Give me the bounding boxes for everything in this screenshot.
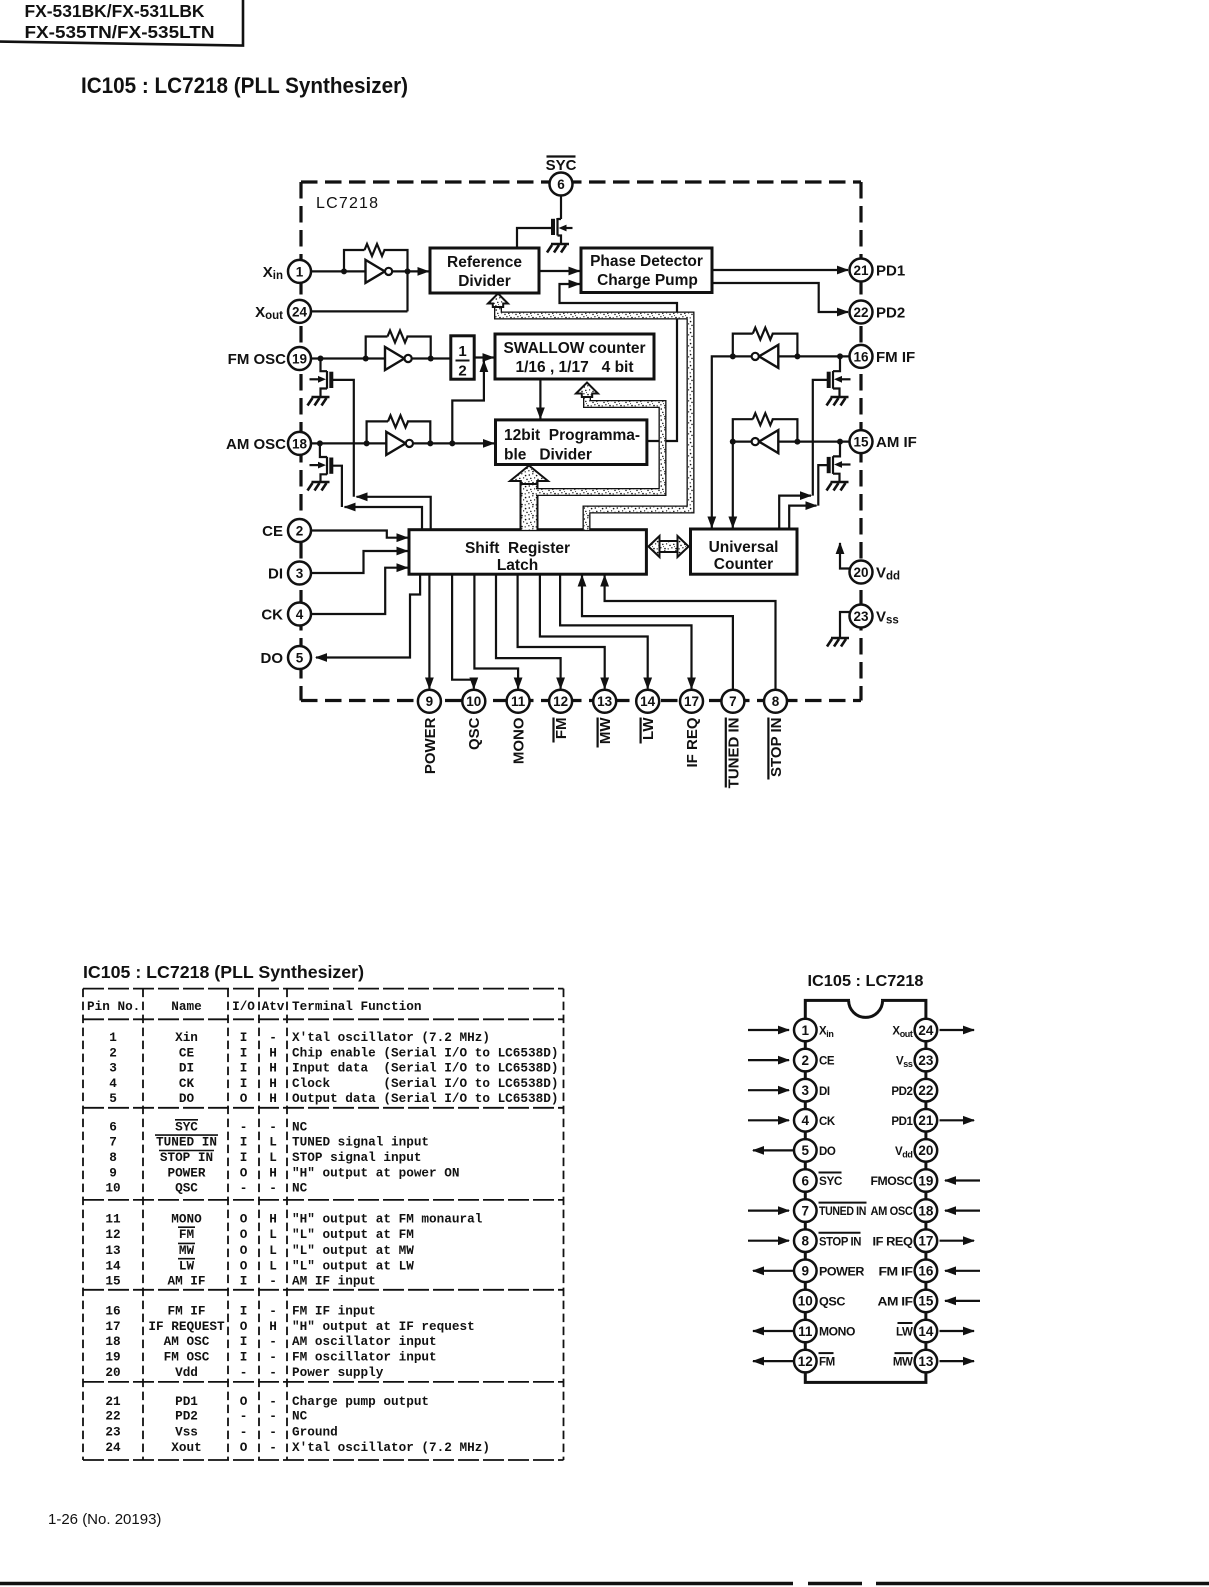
inverter U5 (AM IF, leftward) xyxy=(752,430,779,453)
svg-text:Charge pump output: Charge pump output xyxy=(292,1394,429,1409)
svg-text:2: 2 xyxy=(296,524,304,539)
wire phase detector to PD1 pin21 xyxy=(712,269,848,271)
svg-text:O: O xyxy=(240,1258,248,1273)
svg-text:FM: FM xyxy=(179,1227,194,1242)
svg-text:NC: NC xyxy=(292,1409,308,1424)
svg-text:Vdd: Vdd xyxy=(895,1146,912,1159)
svg-text:15: 15 xyxy=(918,1294,934,1309)
svg-text:-: - xyxy=(269,1334,277,1349)
wire divider feedback to charge pump (PD loop) xyxy=(560,284,678,441)
table rows pins 21-24 xyxy=(105,1394,490,1455)
wire pin16 FM IF row xyxy=(733,355,850,357)
svg-text:7: 7 xyxy=(109,1135,117,1150)
svg-text:DO: DO xyxy=(819,1146,836,1158)
svg-text:Input data (Serial I/O to LC6: Input data (Serial I/O to LC6538D) xyxy=(292,1061,558,1076)
svg-text:STOP IN: STOP IN xyxy=(768,718,785,777)
svg-text:O: O xyxy=(240,1091,248,1106)
svg-text:O: O xyxy=(240,1165,248,1180)
svg-text:I: I xyxy=(240,1030,248,1045)
svg-text:H: H xyxy=(269,1061,277,1076)
svg-text:LW: LW xyxy=(179,1258,195,1273)
svg-text:IF REQ: IF REQ xyxy=(873,1236,914,1248)
pinout pin 13 MW xyxy=(893,1350,974,1373)
svg-text:FX-531BK/FX-531LBK: FX-531BK/FX-531LBK xyxy=(25,1,205,21)
svg-text:IC105 : LC7218: IC105 : LC7218 xyxy=(808,973,924,990)
svg-text:PD1: PD1 xyxy=(891,1116,913,1128)
svg-text:CK: CK xyxy=(179,1076,195,1091)
wire shift register output to pin14 LW xyxy=(540,574,648,688)
pinout pin 9 POWER xyxy=(753,1260,865,1283)
svg-text:13: 13 xyxy=(918,1354,934,1369)
svg-text:22: 22 xyxy=(918,1083,933,1098)
svg-text:H: H xyxy=(269,1319,277,1334)
svg-text:Vss: Vss xyxy=(175,1425,198,1440)
svg-text:H: H xyxy=(269,1091,277,1106)
svg-text:11: 11 xyxy=(798,1324,813,1339)
svg-text:Clock (Serial I/O to LC6: Clock (Serial I/O to LC6538D) xyxy=(292,1076,558,1091)
svg-text:Vss: Vss xyxy=(896,1056,913,1069)
pinout pin 8 STOP IN xyxy=(748,1229,861,1252)
svg-text:Xin: Xin xyxy=(175,1030,198,1045)
svg-text:Vss: Vss xyxy=(876,609,899,627)
svg-text:DI: DI xyxy=(179,1061,194,1076)
svg-text:LW: LW xyxy=(640,717,657,740)
svg-text:Phase Detector: Phase Detector xyxy=(590,253,703,270)
svg-text:12: 12 xyxy=(105,1227,120,1242)
pinout pin 21 PD1 xyxy=(891,1109,974,1132)
svg-text:Pin No.: Pin No. xyxy=(87,999,140,1014)
svg-text:15: 15 xyxy=(105,1274,120,1289)
svg-text:22: 22 xyxy=(853,305,868,320)
pin 16 FM IF xyxy=(850,345,916,368)
12bit programmable divider block xyxy=(496,420,647,465)
phase detector charge pump block xyxy=(581,248,712,293)
svg-text:-: - xyxy=(269,1409,277,1424)
bottom page edge line xyxy=(0,1582,1209,1585)
wire pin2 CE to shift register xyxy=(311,531,408,538)
svg-text:-: - xyxy=(269,1274,277,1289)
svg-text:23: 23 xyxy=(105,1425,120,1440)
resistor R5 (AM IF inverter feedback) xyxy=(753,413,773,425)
svg-text:16: 16 xyxy=(918,1264,934,1279)
wire pin18 AM OSC row to 12bit divider xyxy=(311,442,494,444)
svg-text:21: 21 xyxy=(918,1113,934,1128)
transistor Q1 (SYC switch) xyxy=(553,218,573,244)
IC105 block diagram dashed boundary LC7218 xyxy=(301,182,861,701)
svg-text:CK: CK xyxy=(819,1116,836,1128)
svg-text:QSC: QSC xyxy=(175,1181,198,1196)
svg-text:Xout: Xout xyxy=(171,1440,201,1455)
svg-text:Vdd: Vdd xyxy=(876,565,900,583)
svg-text:STOP IN: STOP IN xyxy=(160,1150,213,1165)
svg-text:POWER: POWER xyxy=(422,717,439,774)
svg-text:I: I xyxy=(240,1061,248,1076)
transistor Q4 (FM IF input switch) xyxy=(813,356,851,495)
svg-text:11: 11 xyxy=(511,694,526,709)
wire universal counter to Q4 gate xyxy=(779,496,811,529)
svg-text:-: - xyxy=(240,1409,248,1424)
pin 4 CK xyxy=(261,603,311,626)
model header box xyxy=(0,0,243,46)
pin function table grid xyxy=(83,989,564,1460)
swallow counter block xyxy=(495,334,654,379)
svg-text:AM IF input: AM IF input xyxy=(292,1274,376,1289)
svg-text:FM IF input: FM IF input xyxy=(292,1304,376,1319)
prescaler 1/2 block xyxy=(451,336,474,380)
svg-text:19: 19 xyxy=(918,1173,933,1188)
svg-text:9: 9 xyxy=(426,694,434,709)
pinout pin 18 AM OSC xyxy=(871,1199,981,1222)
pinout pin 22 PD2 xyxy=(891,1079,937,1102)
svg-text:4: 4 xyxy=(109,1076,117,1091)
svg-text:LC7218: LC7218 xyxy=(316,195,379,212)
svg-text:Ground: Ground xyxy=(292,1425,338,1440)
pinout pin 14 LW xyxy=(896,1320,974,1343)
svg-text:L: L xyxy=(269,1135,277,1150)
svg-text:L: L xyxy=(269,1227,277,1242)
svg-text:12bit Programma-: 12bit Programma- xyxy=(504,427,640,444)
svg-text:4: 4 xyxy=(296,607,304,622)
svg-text:13: 13 xyxy=(105,1243,120,1258)
svg-text:14: 14 xyxy=(105,1258,121,1273)
svg-text:NC: NC xyxy=(292,1119,308,1134)
svg-text:IF REQUEST: IF REQUEST xyxy=(148,1319,225,1334)
svg-text:MONO: MONO xyxy=(819,1327,855,1339)
data bus shift register / universal counter (double arrow, stippled) xyxy=(648,536,688,557)
wire phase detector to PD2 pin22 xyxy=(712,283,848,312)
junction dots pin1 line xyxy=(341,268,411,274)
pin 7 TUNED IN xyxy=(721,690,744,789)
svg-text:Xin: Xin xyxy=(819,1026,833,1039)
svg-text:NC: NC xyxy=(292,1181,308,1196)
overlines for active-low names (rows 6-8) xyxy=(155,1120,218,1151)
svg-text:"L" output at FM: "L" output at FM xyxy=(292,1227,414,1242)
svg-text:STOP signal input: STOP signal input xyxy=(292,1150,421,1165)
svg-text:Atv: Atv xyxy=(262,999,285,1014)
svg-text:6: 6 xyxy=(109,1119,117,1134)
IC package body xyxy=(805,1000,926,1382)
wire shift register output to pin13 MW xyxy=(518,574,605,688)
svg-text:16: 16 xyxy=(105,1304,120,1319)
wire feedback loop inverter A3 xyxy=(367,421,431,443)
table rows pins 6-10 xyxy=(105,1119,459,1195)
svg-text:8: 8 xyxy=(109,1150,117,1165)
svg-text:Shift Register: Shift Register xyxy=(465,540,570,557)
pinout pin 11 MONO xyxy=(753,1320,855,1343)
svg-text:SYC: SYC xyxy=(175,1119,198,1134)
svg-text:PD2: PD2 xyxy=(891,1086,912,1098)
svg-text:I: I xyxy=(240,1076,248,1091)
svg-text:3: 3 xyxy=(296,566,304,581)
pinout pin 12 FM xyxy=(753,1350,835,1373)
svg-text:"H" output at FM monaural: "H" output at FM monaural xyxy=(292,1211,483,1226)
wire shift register control to Q2 gate xyxy=(357,497,431,530)
svg-text:20: 20 xyxy=(853,565,868,580)
svg-text:6: 6 xyxy=(802,1173,810,1188)
svg-text:14: 14 xyxy=(640,694,656,709)
ground below Q4 xyxy=(827,397,849,406)
svg-text:IF REQ: IF REQ xyxy=(684,717,701,767)
wire shift register output to pin17 IF REQ xyxy=(560,574,691,688)
svg-text:-: - xyxy=(269,1440,277,1455)
svg-text:AM OSC: AM OSC xyxy=(226,436,286,453)
svg-text:QSC: QSC xyxy=(819,1297,845,1309)
svg-text:I: I xyxy=(240,1334,248,1349)
svg-text:5: 5 xyxy=(802,1143,810,1158)
wire pin4 CK to shift register xyxy=(311,568,408,614)
svg-text:24: 24 xyxy=(292,304,308,319)
svg-text:1: 1 xyxy=(296,264,304,279)
inverter U2 (FM OSC) xyxy=(385,347,412,370)
svg-text:TUNED IN: TUNED IN xyxy=(819,1206,866,1218)
svg-text:DI: DI xyxy=(819,1086,830,1098)
pinout pin 16 FM IF xyxy=(879,1260,981,1283)
pin 9 POWER xyxy=(418,690,441,774)
junction dots pin15 line xyxy=(730,439,843,445)
wire shift register output to pin9 POWER xyxy=(428,574,430,688)
svg-text:DO: DO xyxy=(179,1091,195,1106)
data bus branch to swallow counter (stippled) xyxy=(536,383,663,493)
svg-text:21: 21 xyxy=(105,1394,121,1409)
transistor Q5 (AM IF input switch) xyxy=(818,442,850,506)
svg-text:O: O xyxy=(240,1440,248,1455)
svg-text:14: 14 xyxy=(918,1324,934,1339)
svg-text:I/O: I/O xyxy=(232,999,255,1014)
svg-text:18: 18 xyxy=(105,1334,120,1349)
svg-text:Chip enable (Serial I/O to LC6: Chip enable (Serial I/O to LC6538D) xyxy=(292,1045,558,1060)
svg-text:11: 11 xyxy=(105,1211,121,1226)
svg-text:5: 5 xyxy=(109,1091,117,1106)
svg-text:Xout: Xout xyxy=(892,1026,912,1039)
svg-text:1: 1 xyxy=(802,1023,810,1038)
pin 23 Vss xyxy=(850,605,899,628)
pinout pin 7 TUNED IN xyxy=(748,1199,867,1222)
svg-text:21: 21 xyxy=(853,263,869,278)
pinout pin 2 CE xyxy=(748,1049,835,1072)
svg-text:L: L xyxy=(269,1243,277,1258)
svg-text:AM OSC: AM OSC xyxy=(871,1206,913,1218)
inverter U1 (crystal oscillator) xyxy=(366,260,393,283)
svg-text:-: - xyxy=(240,1119,248,1134)
ground below Q2 xyxy=(308,397,330,406)
svg-text:MW: MW xyxy=(179,1243,195,1258)
svg-text:LW: LW xyxy=(896,1327,913,1339)
svg-text:17: 17 xyxy=(918,1234,933,1249)
svg-text:I: I xyxy=(240,1350,248,1365)
wire pin15 AM IF row xyxy=(733,441,850,443)
svg-text:PD1: PD1 xyxy=(876,263,905,280)
svg-text:7: 7 xyxy=(802,1203,810,1218)
transistor Q3 (AM OSC band switch) xyxy=(310,443,342,507)
pin 22 PD2 xyxy=(850,301,906,324)
wire pin1 to reference divider xyxy=(311,270,429,272)
svg-text:18: 18 xyxy=(918,1203,934,1218)
shift register latch block xyxy=(409,530,646,575)
svg-text:AM IF: AM IF xyxy=(876,434,917,451)
svg-text:X'tal oscillator (7.2 MHz): X'tal oscillator (7.2 MHz) xyxy=(292,1440,490,1455)
svg-text:POWER: POWER xyxy=(167,1165,205,1180)
svg-text:TUNED signal input: TUNED signal input xyxy=(292,1135,429,1150)
wire pin8 STOP IN to shift register xyxy=(605,576,776,690)
svg-text:-: - xyxy=(269,1365,277,1380)
pin 20 Vdd xyxy=(850,561,901,584)
svg-text:Vdd: Vdd xyxy=(175,1365,198,1380)
svg-text:AM IF: AM IF xyxy=(878,1297,913,1309)
svg-text:Universal: Universal xyxy=(709,539,779,556)
pin 14 LW xyxy=(636,690,659,744)
wire AM tap up into swallow input xyxy=(452,361,484,443)
svg-text:-: - xyxy=(269,1394,277,1409)
svg-text:17: 17 xyxy=(105,1319,120,1334)
svg-text:MONO: MONO xyxy=(171,1211,202,1226)
svg-text:-: - xyxy=(269,1030,277,1045)
svg-text:POWER: POWER xyxy=(819,1266,865,1278)
svg-text:23: 23 xyxy=(918,1053,934,1068)
pin 6 SYC xyxy=(546,157,577,196)
wire feedback loop inverter A1 (pin1/pin24 vertical) xyxy=(344,250,408,311)
svg-text:L: L xyxy=(269,1150,277,1165)
wire feedback loop inverter A2 xyxy=(366,337,431,359)
svg-text:17: 17 xyxy=(684,694,699,709)
pin 11 MONO xyxy=(507,690,530,764)
svg-text:FM: FM xyxy=(819,1357,835,1369)
svg-text:-: - xyxy=(240,1181,248,1196)
pinout pin 10 QSC xyxy=(794,1290,845,1313)
pinout pin 15 AM IF xyxy=(878,1290,981,1313)
svg-text:Xin: Xin xyxy=(263,264,283,282)
svg-text:H: H xyxy=(269,1211,277,1226)
svg-text:Name: Name xyxy=(171,999,201,1014)
svg-text:PD2: PD2 xyxy=(876,305,905,322)
svg-text:1: 1 xyxy=(109,1030,117,1045)
reference divider block xyxy=(430,248,539,293)
svg-text:1: 1 xyxy=(458,343,466,360)
pin 1 Xin xyxy=(263,260,311,283)
svg-text:FMOSC: FMOSC xyxy=(871,1176,913,1188)
svg-text:I: I xyxy=(240,1150,248,1165)
ground below Q3 xyxy=(308,482,330,491)
wire pin6 SYC to transistor Q1 xyxy=(560,196,562,220)
svg-text:19: 19 xyxy=(105,1350,120,1365)
wire shift register control to Q3 gate xyxy=(345,507,423,530)
svg-text:-: - xyxy=(269,1425,277,1440)
Vdd supply arrow at pin20 xyxy=(840,543,850,569)
svg-text:PD2: PD2 xyxy=(175,1409,198,1424)
svg-text:"H" output at IF request: "H" output at IF request xyxy=(292,1319,475,1334)
svg-text:-: - xyxy=(269,1304,277,1319)
svg-text:6: 6 xyxy=(557,177,565,192)
svg-text:DO: DO xyxy=(261,650,284,667)
pin 21 PD1 xyxy=(850,259,906,282)
svg-text:Terminal Function: Terminal Function xyxy=(292,999,421,1014)
svg-text:FM IF: FM IF xyxy=(879,1266,913,1278)
resistor R2 (FM OSC inverter feedback) xyxy=(388,331,408,343)
svg-text:3: 3 xyxy=(802,1083,810,1098)
wire feedback loop inverter A5 xyxy=(733,419,798,441)
wire shift register output to pin11 MONO xyxy=(474,574,518,688)
pinout pin 4 CK xyxy=(748,1109,836,1132)
svg-text:12: 12 xyxy=(553,694,568,709)
svg-text:10: 10 xyxy=(798,1294,813,1309)
wire universal counter to Q5 gate xyxy=(789,506,816,529)
wire pin3 DI to shift register xyxy=(311,551,408,573)
pin 19 FM OSC xyxy=(228,347,311,370)
svg-text:Xout: Xout xyxy=(255,304,283,322)
svg-text:10: 10 xyxy=(105,1181,120,1196)
svg-text:-: - xyxy=(269,1350,277,1365)
svg-text:FM: FM xyxy=(553,718,570,740)
pin 12 FM xyxy=(549,690,572,743)
svg-text:O: O xyxy=(240,1227,248,1242)
svg-text:5: 5 xyxy=(296,651,304,666)
resistor R4 (FM IF inverter feedback) xyxy=(753,328,773,340)
wire shift register DO to pin5 xyxy=(316,574,420,657)
svg-text:SWALLOW counter: SWALLOW counter xyxy=(503,340,645,357)
svg-text:13: 13 xyxy=(597,694,613,709)
resistor R3 (AM OSC inverter feedback) xyxy=(388,415,408,427)
junction dots pin18 line xyxy=(317,440,455,446)
pinout pin 20 Vdd xyxy=(895,1139,937,1162)
pin 18 AM OSC xyxy=(226,432,311,455)
svg-text:SYC: SYC xyxy=(819,1176,842,1188)
svg-text:FX-535TN/FX-535LTN: FX-535TN/FX-535LTN xyxy=(25,22,215,42)
svg-text:24: 24 xyxy=(105,1440,121,1455)
svg-text:CE: CE xyxy=(819,1056,835,1068)
svg-text:I: I xyxy=(240,1304,248,1319)
table header row xyxy=(87,999,421,1014)
ground at Vss xyxy=(827,638,849,647)
pin 13 MW xyxy=(593,690,616,748)
svg-text:18: 18 xyxy=(292,436,308,451)
wire shift register output to pin12 FM xyxy=(496,574,561,688)
svg-text:-: - xyxy=(269,1181,277,1196)
svg-text:FM OSC: FM OSC xyxy=(164,1350,210,1365)
svg-text:23: 23 xyxy=(853,609,869,624)
table rows pins 1-5 xyxy=(109,1030,558,1106)
svg-text:H: H xyxy=(269,1045,277,1060)
svg-text:Divider: Divider xyxy=(458,273,511,290)
svg-text:IC105 : LC7218 (PLL Synthesize: IC105 : LC7218 (PLL Synthesizer) xyxy=(81,73,408,98)
wire pin7 TUNED IN to shift register xyxy=(582,576,733,690)
svg-text:H: H xyxy=(269,1076,277,1091)
svg-text:3: 3 xyxy=(109,1061,117,1076)
svg-text:22: 22 xyxy=(105,1409,120,1424)
ground below Q5 xyxy=(827,482,849,491)
pinout pin 17 IF REQ xyxy=(873,1229,975,1252)
pinout pin 6 SYC xyxy=(794,1169,842,1192)
svg-text:FM oscillator input: FM oscillator input xyxy=(292,1350,437,1365)
wire prescaler to swallow counter xyxy=(474,356,493,358)
svg-text:TUNED IN: TUNED IN xyxy=(156,1135,217,1150)
svg-text:Power supply: Power supply xyxy=(292,1365,384,1380)
svg-text:O: O xyxy=(240,1211,248,1226)
pin 2 CE xyxy=(262,519,311,542)
svg-text:CE: CE xyxy=(262,523,283,540)
svg-text:FM IF: FM IF xyxy=(167,1304,205,1319)
svg-text:SYC: SYC xyxy=(546,157,577,174)
pinout pin 5 DO xyxy=(753,1139,836,1162)
wire pin23 Vss to ground xyxy=(840,612,850,637)
svg-text:I: I xyxy=(240,1135,248,1150)
svg-text:O: O xyxy=(240,1394,248,1409)
table rows pins 16-20 xyxy=(105,1304,474,1380)
svg-text:L: L xyxy=(269,1258,277,1273)
pin 17 IF REQ xyxy=(680,690,703,768)
svg-text:-: - xyxy=(269,1119,277,1134)
wire reference divider to phase detector xyxy=(539,270,580,272)
svg-text:I: I xyxy=(240,1045,248,1060)
svg-text:TUNED IN: TUNED IN xyxy=(725,718,742,789)
